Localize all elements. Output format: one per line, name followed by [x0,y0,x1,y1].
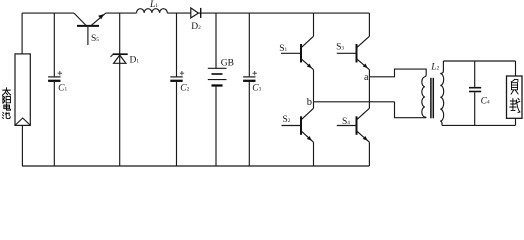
wire left edge top [21,13,23,54]
capacitor C4 plates [469,87,481,89]
transistor S3 arrow [363,64,368,69]
transistor S1 base bar [300,44,302,63]
solar cell 太阳电池 rectangle [15,54,30,126]
svg-text:D1: D1 [130,55,140,65]
diode D2 cathode bar [200,8,202,18]
char 负 [511,79,518,94]
transistor S1 base lead [281,52,301,54]
transistor S5 base bar [77,25,99,27]
battery GB lead top [215,13,217,68]
transistor S5 right diagonal [91,13,105,25]
capacitor C1 lead top [53,13,55,76]
svg-text:C1: C1 [58,83,67,93]
transistor S5 left diagonal [74,13,86,25]
svg-text:GB: GB [221,59,234,69]
wire S2 emitter to bottom rail [313,142,315,166]
transistor S4 arrow [363,136,368,141]
capacitor C4 lead bottom [474,92,476,125]
char 太 [2,88,10,96]
capacitor C2 lead top [176,13,178,76]
transistor S1 collector diagonal [301,36,314,48]
transistor S3 base lead [337,52,357,54]
char 阳 [3,96,11,103]
svg-text:C2: C2 [180,84,189,94]
wire left edge bottom [21,125,23,166]
wire top rail D2 to right corner [198,12,369,14]
capacitor C1 plates [48,76,60,78]
wire S1 emitter to node b [313,70,315,102]
wire top rail left segment [22,12,74,14]
transistor S3 emitter diagonal [357,59,370,70]
transistor S4 base lead [337,125,357,127]
text 负载 (hand-drawn strokes) [510,79,520,112]
diode D1 triangle [114,55,126,63]
transistor S2 emitter diagonal [301,131,314,142]
node a wire to transformer primary top [369,69,426,77]
node b wire across [314,101,395,103]
capacitor C1 lead bottom [53,82,55,166]
svg-text:S1: S1 [279,44,287,54]
transistor S4 collector diagonal [357,108,370,120]
diode D1 lead bottom [119,55,121,166]
svg-text:S5: S5 [91,34,99,44]
load box 负载 [507,76,523,118]
svg-text:S4: S4 [342,117,350,127]
diode D2 triangle [191,8,199,18]
char 池 [2,112,10,119]
wire load bottom lead [515,118,517,125]
transistor S1 arrow [307,64,312,69]
svg-text:S3: S3 [336,43,344,53]
transistor S5 base lead [87,27,89,45]
wire bottom rail [22,165,369,167]
transistor S3 base bar [356,44,358,63]
diode D1 zener tick [111,54,114,57]
char 载 [510,98,520,112]
transistor S4 emitter diagonal [357,131,370,142]
svg-text:b: b [307,97,312,108]
wire S4 emitter to bottom rail [368,142,370,166]
wire node b to transformer primary bottom [395,102,427,118]
capacitor C2 plates [170,76,182,78]
transistor S5 arrow [98,14,104,19]
battery GB lead bottom [215,86,217,167]
transformer L2 core [430,78,432,119]
svg-text:L1: L1 [149,0,158,10]
transformer L2 secondary winding [440,61,443,125]
transistor S2 collector diagonal [301,108,314,120]
capacitor C1 plus [58,71,62,75]
svg-text:C4: C4 [481,96,490,106]
capacitor C2 lead bottom [176,82,178,166]
capacitor C4 lead top [474,61,476,87]
wire S1 collector drop [313,13,315,36]
transistor S3 collector diagonal [357,36,370,48]
solar cell chevron [15,118,30,125]
capacitor C3 plus [253,71,257,75]
battery GB plates [208,67,227,69]
transistor S1 emitter diagonal [301,59,314,70]
transformer L2 primary winding [422,74,426,118]
transistor S2 base bar [300,116,302,135]
capacitor C3 lead bottom [248,82,250,166]
capacitor C3 lead top [248,13,250,76]
wire secondary top rail [443,60,515,62]
inductor L1 [137,9,168,13]
svg-text:a: a [364,72,369,83]
svg-text:S2: S2 [283,115,291,125]
capacitor C3 plates [243,76,255,78]
svg-text:L2: L2 [430,63,439,73]
transistor S2 base lead [282,125,302,127]
wire S3 collector drop [368,13,370,36]
text 太阳电池 (hand-drawn strokes) [2,88,11,119]
wire load top lead [515,61,517,76]
transistor S2 arrow [307,136,312,141]
diode D1 cathode bar [113,53,128,55]
wire top rail L1 to D2 [167,12,190,14]
svg-text:D2: D2 [191,22,201,32]
char 电 [4,104,11,110]
transistor S4 base bar [356,116,358,135]
wire secondary bottom rail [442,124,516,126]
wire S3 emitter through node a to S4 collector [368,70,370,109]
wire top rail S5 to L1 [106,12,137,14]
diode D1 lead top [119,13,121,54]
capacitor C2 plus [180,71,184,75]
wire node b to S2 collector [313,102,315,109]
svg-text:C3: C3 [252,84,261,94]
